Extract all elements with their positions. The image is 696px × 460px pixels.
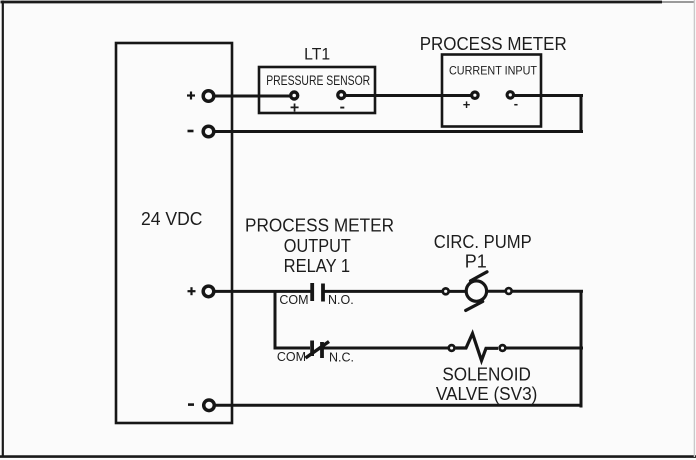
- pin - of current input: [507, 92, 518, 111]
- relay contact NO: [279, 283, 353, 307]
- wire pump to right bus: [486, 290, 583, 293]
- svg-text:N.C.: N.C.: [329, 351, 354, 365]
- wire +24V top from terminal to pressure sensor pin: [210, 95, 292, 98]
- svg-text:LT1: LT1: [304, 45, 330, 64]
- svg-text:PROCESS METER: PROCESS METER: [245, 216, 394, 236]
- svg-text:-: -: [340, 99, 345, 116]
- svg-text:PRESSURE SENSOR: PRESSURE SENSOR: [266, 73, 370, 88]
- wire NC contact to solenoid: [322, 347, 449, 350]
- terminal + of 24VDC middle: [188, 286, 214, 297]
- wire junction vertical to NC branch: [274, 291, 277, 348]
- svg-text:P1: P1: [465, 252, 487, 272]
- svg-text:SOLENOID: SOLENOID: [442, 365, 531, 385]
- pressure sensor LT1 box: [259, 45, 375, 114]
- pin - of pressure sensor: [338, 92, 345, 116]
- wire solenoid to right bus: [505, 347, 583, 350]
- svg-text:+: +: [290, 100, 299, 117]
- wire + to NO contact: [210, 290, 311, 293]
- wire pressure sensor minus to current input plus: [343, 94, 473, 97]
- solenoid valve SV3: [436, 334, 538, 405]
- svg-text:COM: COM: [277, 350, 306, 364]
- svg-text:CIRC. PUMP: CIRC. PUMP: [434, 232, 532, 252]
- svg-text:-: -: [514, 96, 518, 111]
- svg-text:RELAY 1: RELAY 1: [284, 256, 351, 276]
- pin + of pressure sensor: [290, 92, 299, 117]
- svg-text:+: +: [463, 97, 471, 112]
- wire top minus bus: [210, 130, 583, 133]
- wire NC branch horizontal: [274, 347, 311, 350]
- terminal - of 24VDC top: [188, 126, 214, 137]
- terminal + of 24VDC top: [187, 91, 214, 102]
- relay contact NC: [277, 341, 354, 365]
- process meter current input box: [420, 33, 567, 127]
- wire current input minus to right return: [512, 94, 583, 97]
- svg-text:COM: COM: [279, 293, 308, 307]
- wire top right vertical return: [580, 94, 583, 133]
- wire bottom minus bus: [210, 404, 583, 407]
- svg-text:PROCESS METER: PROCESS METER: [420, 33, 567, 54]
- svg-text:CURRENT INPUT: CURRENT INPUT: [449, 64, 538, 78]
- svg-text:OUTPUT: OUTPUT: [284, 236, 351, 256]
- relay label: [245, 216, 394, 277]
- svg-text:24 VDC: 24 VDC: [141, 209, 203, 229]
- wire NO contact to pump: [323, 290, 468, 293]
- power supply 24 VDC: [116, 43, 232, 423]
- pin + of current input: [463, 92, 478, 112]
- circ pump P1: [434, 232, 532, 310]
- terminal - of 24VDC bottom: [188, 400, 214, 411]
- svg-text:N.O.: N.O.: [328, 293, 354, 307]
- wire right bus vertical: [580, 290, 583, 408]
- svg-text:VALVE (SV3): VALVE (SV3): [436, 384, 538, 404]
